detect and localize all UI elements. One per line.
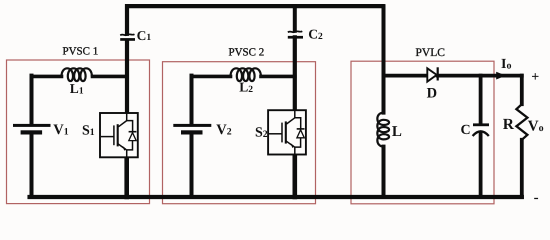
svg-text:R: R xyxy=(503,116,515,133)
svg-text:PVLC: PVLC xyxy=(416,47,446,59)
svg-text:+: + xyxy=(531,70,539,85)
svg-text:-: - xyxy=(534,190,539,206)
svg-text:C: C xyxy=(461,123,471,138)
svg-text:PVSC 2: PVSC 2 xyxy=(229,46,265,58)
svg-text:D: D xyxy=(427,86,437,102)
svg-text:PVSC 1: PVSC 1 xyxy=(63,45,99,57)
svg-text:L: L xyxy=(392,124,402,140)
